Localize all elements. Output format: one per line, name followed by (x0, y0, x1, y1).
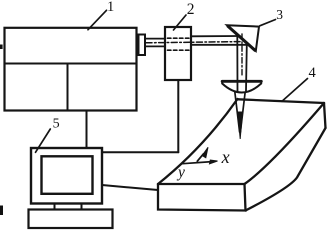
svg-text:5: 5 (53, 116, 60, 131)
svg-text:3: 3 (276, 7, 283, 22)
svg-text:y: y (176, 164, 185, 181)
svg-text:2: 2 (187, 1, 195, 18)
svg-text:1: 1 (107, 0, 114, 15)
svg-text:x: x (221, 147, 230, 167)
svg-text:4: 4 (309, 65, 317, 81)
